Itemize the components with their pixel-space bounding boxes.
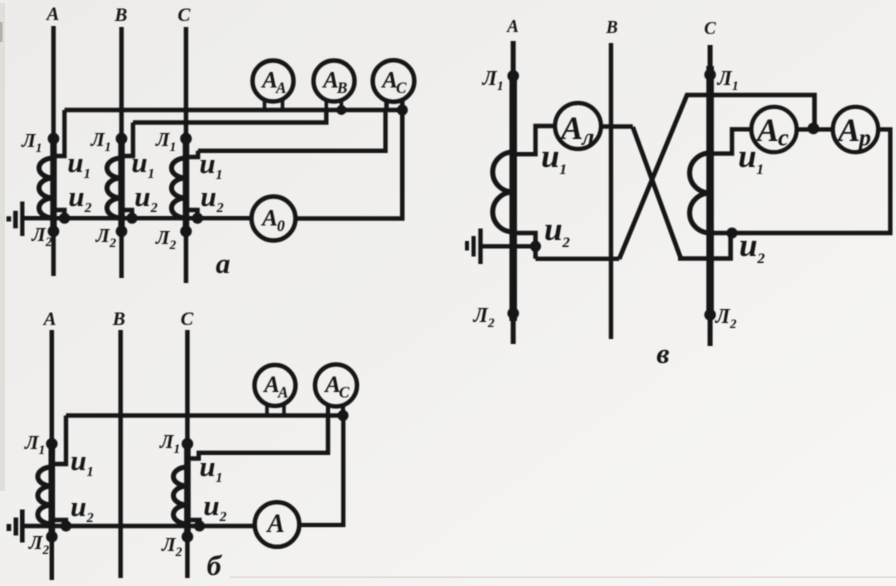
terminal dot Л1-A (a) <box>48 133 60 145</box>
ammeter AA (b) <box>255 365 296 406</box>
wire AP right loop to И2C (v) <box>732 129 890 233</box>
terminal dot Л1-A (b) <box>46 438 58 450</box>
junction dot И2-A (b) <box>61 521 72 532</box>
wire И1 tap phase A (a) <box>54 110 65 156</box>
terminal dot Л2-C (a) <box>180 226 192 238</box>
terminal dot Л1-C (a) <box>180 133 192 145</box>
node C bus (v) <box>708 45 713 346</box>
wire И1 tap phase A (v) <box>513 126 555 154</box>
wire common bus y=110 (a) <box>65 108 404 112</box>
transformer winding T-C (v) <box>690 153 711 233</box>
terminal dot Л2-A (v) <box>507 308 519 320</box>
junction dot И2-B (a) <box>127 213 138 224</box>
terminal dot Л2-B (a) <box>116 226 128 238</box>
terminal dot Л2-A (b) <box>46 531 58 543</box>
svg-text:а: а <box>216 248 231 280</box>
wire phase C secondary (b) <box>187 416 328 459</box>
transformer winding T-A (a) <box>39 158 54 218</box>
node A bus (a) <box>51 26 56 276</box>
transformer winding T-C (a) <box>172 158 187 218</box>
wire И2A bottom run (v) <box>536 257 620 261</box>
terminal dot Л1-C (b) <box>182 438 194 450</box>
wire diagonal AL-to-И2C (v) <box>633 127 731 259</box>
junction dot И2-C (v) <box>727 228 738 239</box>
svg-text:С: С <box>704 18 716 38</box>
ammeter A0 (a) <box>252 197 296 241</box>
ammeter AC (b) <box>315 364 357 406</box>
svg-text:С: С <box>396 80 407 97</box>
wire diagonal И2A-to-node (v) <box>619 95 814 259</box>
svg-text:А: А <box>43 309 57 330</box>
svg-text:А: А <box>275 80 286 97</box>
wire common bus y=415.5 (b) <box>66 413 344 417</box>
node C bus (a) <box>184 27 189 283</box>
transformer winding T-A (b) <box>38 467 52 524</box>
node C bus (b) <box>185 330 190 578</box>
terminal dot Л1-B (a) <box>116 133 128 145</box>
ammeter AL (v) <box>555 103 601 149</box>
node B bus (b) <box>118 330 123 578</box>
transformer winding T-B (a) <box>107 158 122 218</box>
wire ammeter A to riser (b) <box>299 416 343 526</box>
wire И1 tap phase B (a) <box>122 123 134 157</box>
svg-text:А: А <box>277 385 288 402</box>
wire И2 tap phase C (b) <box>187 520 199 527</box>
svg-text:р: р <box>857 126 871 152</box>
wire phase B secondary y=123.5 (a) <box>133 110 326 123</box>
terminal dot Л2-C (v) <box>704 309 716 321</box>
junction dot AB neck (a) <box>336 105 346 115</box>
ground (b) <box>20 510 25 543</box>
svg-text:С: С <box>339 385 350 402</box>
transformer winding T-C (b) <box>173 467 187 524</box>
junction dot И2-C (b) <box>194 521 205 532</box>
node B bus (v) <box>609 43 613 339</box>
svg-text:л: л <box>581 125 594 151</box>
node B bus (a) <box>119 27 124 278</box>
terminal dot Л2-A (a) <box>48 226 60 238</box>
wire И2 tap phase C (a) <box>186 210 198 218</box>
wire А0 to right riser (a) <box>296 110 403 219</box>
wire И2 common bus (a) <box>23 216 252 220</box>
wire phase C secondary y=152 (a) <box>198 110 386 151</box>
terminal dot Л2-C (b) <box>182 531 194 543</box>
junction dot ground И2A (v) <box>530 241 541 252</box>
wire И2 ground bus (b) <box>22 524 255 528</box>
wire И1 tap phase C (a) <box>186 151 198 157</box>
wire И2 tap phase A (v) <box>513 233 535 259</box>
wire И2 tap phase A (a) <box>54 210 65 218</box>
wire И2 tap phase B (a) <box>122 210 133 218</box>
wire И2 tap phase A (b) <box>52 520 66 527</box>
terminal dot Л1-C (v) <box>704 69 716 81</box>
svg-text:С: С <box>181 309 194 330</box>
wire AL right to diagonal (v) <box>601 124 633 128</box>
wire И1 tap phase A (b) <box>52 416 66 465</box>
svg-text:в: в <box>657 338 670 370</box>
ground (a) <box>20 202 24 237</box>
ammeter AP (v) <box>833 107 878 152</box>
svg-text:А: А <box>559 111 583 147</box>
svg-text:А: А <box>755 113 779 149</box>
svg-text:А: А <box>506 16 519 36</box>
svg-text:В: В <box>605 17 618 37</box>
wire И2 tap phase C (v) <box>710 231 732 236</box>
ammeter AA (a) <box>253 61 294 102</box>
svg-text:В: В <box>112 309 126 330</box>
wire И1 tap phase C (v) <box>710 129 751 153</box>
terminal dot Л1-A (v) <box>507 70 519 82</box>
svg-text:В: В <box>336 80 347 97</box>
ammeter A (b) <box>255 502 300 547</box>
svg-text:б: б <box>207 550 223 582</box>
wire AC to AP (v) <box>797 127 833 131</box>
ammeter AC (v) <box>751 107 796 152</box>
junction dot AC neck (b) <box>338 410 349 421</box>
scan artifact: left edge dark band <box>0 3 5 491</box>
scan artifact: bottom faint rule <box>230 576 896 578</box>
node A bus (v) <box>511 41 516 344</box>
junction dot И2-A (a) <box>59 213 70 224</box>
ammeter AB (a) <box>314 61 355 102</box>
svg-text:0: 0 <box>277 218 285 235</box>
junction dot AC-AP node (v) <box>808 123 820 135</box>
svg-text:А: А <box>836 113 860 149</box>
svg-text:А: А <box>260 206 278 232</box>
svg-text:А: А <box>46 4 60 25</box>
junction dot И2-C (a) <box>192 213 203 224</box>
svg-text:С: С <box>178 5 191 26</box>
ammeter AC (a) <box>373 60 415 102</box>
ground (v) <box>481 244 536 248</box>
junction dot AC neck (a) <box>397 105 408 116</box>
node A bus (b) <box>50 330 55 580</box>
svg-text:В: В <box>114 5 128 26</box>
svg-text:А: А <box>265 509 284 538</box>
svg-text:с: с <box>778 126 789 152</box>
transformer winding T-A (v) <box>493 152 514 232</box>
